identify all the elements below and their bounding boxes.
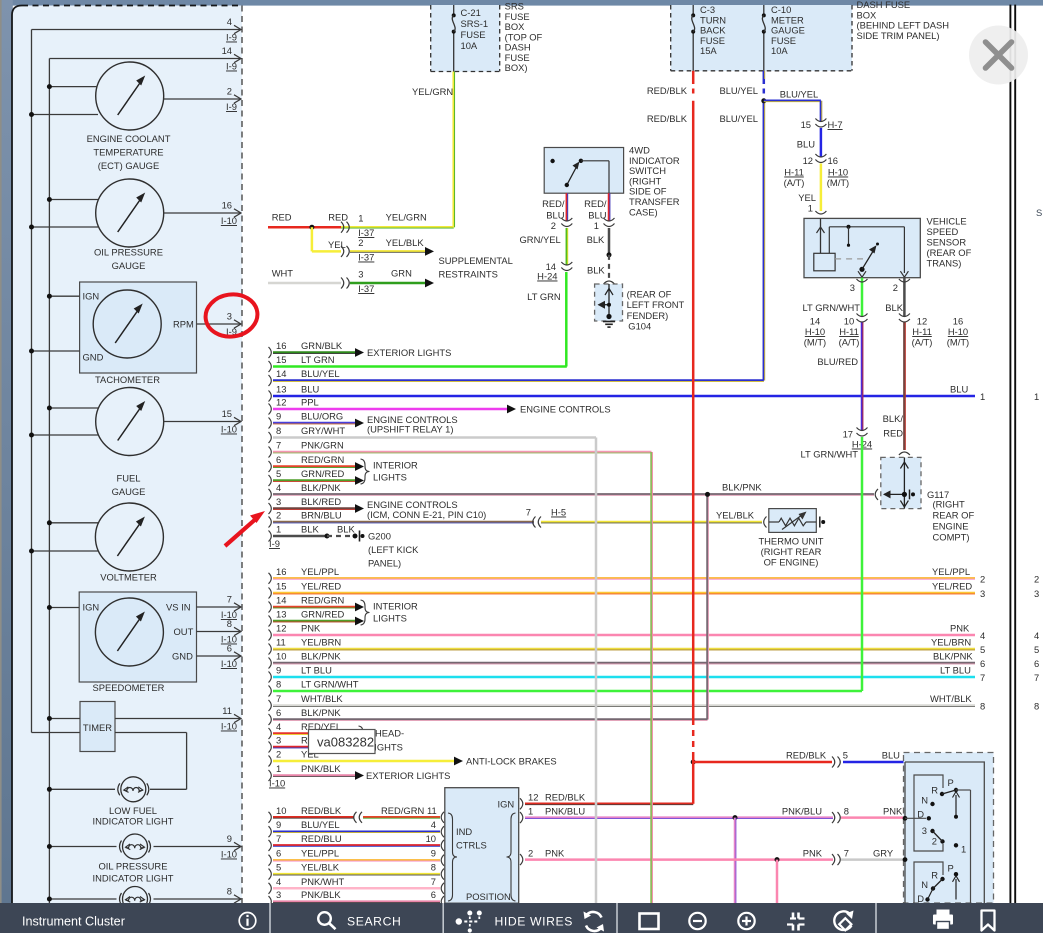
toolbar rotate/diamond icon [834,911,853,931]
svg-text:YEL/PPL: YEL/PPL [301,848,339,859]
svg-text:BLK: BLK [301,524,319,535]
svg-text:8: 8 [276,679,281,690]
svg-text:9: 9 [227,833,232,844]
svg-text:YEL: YEL [798,192,816,203]
label exterior lights (pin 1) [366,770,450,781]
svg-text:GAUGE: GAUGE [112,486,146,497]
svg-text:RED: RED [328,212,348,223]
svg-text:4: 4 [276,721,281,732]
svg-text:EXTERIOR LIGHTS: EXTERIOR LIGHTS [366,770,450,781]
svg-text:I-9: I-9 [226,61,237,72]
svg-text:15: 15 [276,354,286,365]
wire YEL/BLK from H-5 to thermo unit [541,510,762,523]
svg-text:5: 5 [1034,644,1039,655]
svg-text:10: 10 [426,833,436,844]
svg-text:16: 16 [828,155,838,166]
svg-text:GRN/RED: GRN/RED [301,609,344,620]
component: 4WD indicator switch [544,145,680,218]
svg-text:SENSOR: SENSOR [927,237,967,248]
svg-text:8: 8 [431,862,436,873]
wire BLU to connector 12/16 [784,128,850,188]
svg-text:2: 2 [276,749,281,760]
svg-text:YEL/BRN: YEL/BRN [931,637,971,648]
svg-text:TIMER: TIMER [83,722,112,733]
svg-text:(A/T): (A/T) [784,177,805,188]
svg-text:5: 5 [980,644,985,655]
gauge: speedometer [47,592,241,693]
wire RED/BLK dashes below C-3 [647,71,693,124]
fuse box DASH (C-3, C-10) [671,4,852,71]
wire I-9 pin 1 BLK [269,524,328,542]
brace + label headlights (pins 4,3) [359,726,405,753]
svg-text:IGN: IGN [83,291,100,302]
gauge: engine coolant temperature [29,62,241,171]
svg-text:15A: 15A [700,45,717,56]
svg-text:6: 6 [276,454,281,465]
svg-text:8: 8 [980,701,985,712]
wire I-9 pin 8 GRY/WHT [269,425,597,443]
label engine controls ICM (pin 3) [367,499,486,520]
toolbar bookmark icon [982,911,995,931]
toolbar info icon [239,913,256,930]
svg-text:YEL/GRN: YEL/GRN [412,86,453,97]
svg-text:PNK/WHT: PNK/WHT [301,876,345,887]
svg-text:15: 15 [276,581,286,592]
svg-text:RED/: RED/ [542,198,565,209]
svg-text:8: 8 [1034,701,1039,712]
svg-text:CTRLS: CTRLS [456,840,487,851]
svg-text:LT GRN: LT GRN [301,354,335,365]
svg-text:RPM: RPM [173,319,194,330]
VSS pin 3 wire LT GRN/WHT [803,278,868,348]
4WD switch pin 1 wire RED/BLU [584,193,614,231]
svg-text:H-5: H-5 [551,507,566,518]
svg-text:FUSE: FUSE [461,29,486,40]
svg-text:(REAR OF: (REAR OF [627,289,672,300]
label G117 location [933,499,975,543]
svg-text:1: 1 [276,763,281,774]
svg-text:3: 3 [227,311,232,322]
svg-text:BLK/: BLK/ [883,413,904,424]
svg-text:RED: RED [883,428,903,439]
svg-text:(UPSHIFT RELAY 1): (UPSHIFT RELAY 1) [367,424,453,435]
svg-text:14: 14 [276,368,286,379]
svg-text:GRN: GRN [391,268,412,279]
gauge: fuel [29,388,241,498]
wire end label WHT/BLK 8 [930,693,1039,712]
svg-text:N: N [921,794,928,805]
svg-text:OUT: OUT [174,626,194,637]
lamp: oil pressure indicator light [47,833,241,884]
component: transmission range switch [903,753,994,905]
svg-text:(M/T): (M/T) [947,337,969,348]
svg-text:14: 14 [810,316,820,327]
svg-text:VOLTMETER: VOLTMETER [100,572,157,583]
wire I-10 pin 3 RED/BLU [269,735,365,753]
wire ind-ctrls pin 5 YEL/BLK [269,862,445,880]
svg-text:(LEFT KICK: (LEFT KICK [368,544,419,555]
svg-text:5: 5 [276,862,281,873]
svg-text:H-10: H-10 [948,326,968,337]
svg-text:(M/T): (M/T) [827,177,849,188]
svg-text:7: 7 [431,876,436,887]
svg-text:POSITION: POSITION [466,891,511,902]
svg-text:3: 3 [276,889,281,900]
svg-text:Instrument Cluster: Instrument Cluster [22,915,125,929]
svg-text:VS IN: VS IN [166,602,191,613]
toolbar search icon + label [318,912,401,929]
svg-text:8: 8 [276,425,281,436]
lamp: low fuel indicator light [47,777,174,827]
close (X) button [969,26,1028,85]
wire end label YEL/RED 3 [932,581,1039,600]
svg-text:4: 4 [431,819,436,830]
wire I-10 pin 14 RED/GRN [269,595,365,613]
connector label I-10 [269,778,285,789]
wire LT GRN/WHT down to bundle row 8 [861,437,864,691]
svg-text:IND: IND [456,826,472,837]
svg-text:10: 10 [844,316,854,327]
wire GRN/YEL to connector 14 H-24 [520,228,573,282]
wire I-10 pin 15 YEL/RED [269,581,976,599]
bus wire left (gauge ground bus) [32,30,81,733]
wire I-9 pin 4 BLK/PNK [269,482,875,500]
svg-text:D: D [917,893,924,904]
svg-text:7: 7 [844,848,849,859]
toolbar zoom-out icon [689,913,705,929]
svg-text:7: 7 [276,693,281,704]
svg-text:SPEEDOMETER: SPEEDOMETER [93,682,165,693]
wire I-9 pin 13 BLU [269,384,976,402]
svg-text:YEL/BLK: YEL/BLK [716,510,755,521]
svg-text:N: N [921,879,928,890]
wire PNK vertical branch [776,860,779,903]
wire RED/BLK branch to inhibitor switch pin 5 [693,750,905,768]
bus wire right (ignition bus) [48,59,50,904]
svg-text:I-37: I-37 [358,283,374,294]
wire I-9 pin 14 BLU/YEL [269,368,764,386]
svg-text:(A/T): (A/T) [839,337,860,348]
svg-text:PNK/BLK: PNK/BLK [301,763,341,774]
svg-text:LIGHTS: LIGHTS [373,472,407,483]
wire I-9 pin 3 BLK/RED [269,496,365,514]
svg-text:G104: G104 [628,321,651,332]
svg-text:YEL/PPL: YEL/PPL [932,566,970,577]
wire BLK/RED down to G117 [883,323,910,456]
svg-text:YEL/RED: YEL/RED [932,581,972,592]
svg-text:16: 16 [276,340,286,351]
svg-text:EXTERIOR LIGHTS: EXTERIOR LIGHTS [367,347,451,358]
svg-text:3: 3 [276,735,281,746]
label engine controls upshift relay (pin 9) [367,414,458,435]
svg-text:(ECT) GAUGE: (ECT) GAUGE [98,160,159,171]
svg-text:PNK: PNK [301,623,321,634]
svg-text:LIGHTS: LIGHTS [373,613,407,624]
svg-text:16: 16 [222,200,232,211]
svg-text:10: 10 [276,651,286,662]
svg-text:8: 8 [227,618,232,629]
svg-text:8: 8 [227,886,232,897]
svg-text:1: 1 [980,391,985,402]
svg-text:11: 11 [427,805,437,816]
wire BLU end label [950,384,1039,403]
svg-text:SUPPLEMENTAL: SUPPLEMENTAL [439,255,513,266]
svg-text:7: 7 [276,440,281,451]
svg-text:OIL PRESSURE: OIL PRESSURE [94,247,163,258]
svg-text:BLK/RED: BLK/RED [301,496,341,507]
svg-text:2: 2 [358,237,363,248]
top window bar [0,0,1043,6]
svg-text:9: 9 [276,819,281,830]
svg-text:RED/BLK: RED/BLK [301,805,342,816]
svg-text:PNK: PNK [950,623,970,634]
svg-text:PNK: PNK [545,848,565,859]
label G104 location [627,289,685,332]
wire I-10 pin 1 PNK/BLK [269,763,365,781]
svg-text:(REAR OF: (REAR OF [927,247,972,258]
svg-text:6: 6 [431,889,436,900]
wire end label LT BLU 7 [940,665,1039,684]
svg-text:OF ENGINE): OF ENGINE) [764,557,819,568]
svg-text:TEMPERATURE: TEMPERATURE [93,147,163,158]
svg-text:1: 1 [594,220,599,231]
svg-text:LOW FUEL: LOW FUEL [109,805,157,816]
svg-text:LT GRN/WHT: LT GRN/WHT [301,679,359,690]
wire ind-ctrls pin 12 RED/BLK (IGN feed) [520,792,693,810]
svg-text:2: 2 [980,573,985,584]
svg-text:4: 4 [276,482,281,493]
wire BLU/YEL vertical from C-10 fuse [763,101,766,381]
wire PNK/BLU vertical branch [734,818,737,903]
wire end label PNK 4 [950,623,1039,642]
wire PNK/GRN vertical [650,452,653,903]
svg-text:FENDER): FENDER) [627,310,669,321]
svg-text:IGN: IGN [498,799,515,810]
wire I-9 pin 6 RED/GRN [269,454,365,472]
wire BLK/PNK into G117 [722,481,878,500]
wire BLU/RED to connector 17 H-24 [801,323,873,460]
svg-text:ENGINE COOLANT: ENGINE COOLANT [87,133,171,144]
svg-text:P: P [948,863,954,874]
svg-text:SEARCH: SEARCH [347,915,401,929]
wire BLK/PNK vertical (to G117 splice) [705,492,710,720]
svg-text:RED/GRN: RED/GRN [301,595,344,606]
svg-text:12: 12 [276,623,286,634]
svg-text:8: 8 [844,806,849,817]
stray letter S at right edge [1036,207,1042,218]
svg-text:TACHOMETER: TACHOMETER [95,374,160,385]
svg-text:BLU/YEL: BLU/YEL [780,89,819,100]
4WD switch pin 2 wire RED/BLU [542,193,572,231]
svg-text:2: 2 [551,220,556,231]
svg-text:SPEED: SPEED [927,226,959,237]
svg-text:1: 1 [961,844,966,855]
svg-text:16: 16 [953,316,963,327]
svg-text:RED/BLK: RED/BLK [545,792,586,803]
svg-text:11: 11 [222,705,232,716]
toolbar center/compress icon [787,913,805,931]
ground G104 box [595,284,623,327]
wire ind-ctrls pin 4 PNK/WHT [269,876,445,894]
svg-text:SIDE TRIM PANEL): SIDE TRIM PANEL) [857,30,940,41]
svg-text:GRY/WHT: GRY/WHT [301,425,345,436]
diagram page edge double line [1010,5,1015,903]
connector 7 H-5 on pin 2 wire [526,507,566,528]
svg-text:2: 2 [227,86,232,97]
svg-text:9: 9 [276,411,281,422]
wire I-9 pin 7 PNK/GRN [269,440,652,458]
component: thermo unit [758,509,825,568]
svg-text:BLU: BLU [882,750,900,761]
wire end label YEL/BRN 5 [931,637,1039,656]
wire end label BLK/PNK 6 [933,651,1039,670]
svg-text:12: 12 [803,155,813,166]
wire BLK dashed to ground G104 [587,255,615,284]
svg-text:FUEL: FUEL [117,473,141,484]
svg-text:14: 14 [222,45,232,56]
svg-text:PNK: PNK [883,806,903,817]
wire ind-ctrls pin 1 PNK/BLU [520,806,905,824]
svg-text:HIDE WIRES: HIDE WIRES [495,915,573,929]
wire BLK to splice [587,228,612,257]
svg-text:16: 16 [276,566,286,577]
label DASH fuse box [857,0,950,41]
svg-text:D: D [917,809,924,820]
svg-text:BLU: BLU [797,139,815,150]
svg-text:BLU: BLU [301,384,319,395]
svg-text:GRN/RED: GRN/RED [301,468,344,479]
pin 4 I-9 output wire [32,16,242,43]
svg-text:va083282: va083282 [317,735,374,750]
svg-text:2: 2 [528,848,533,859]
svg-text:H-7: H-7 [828,119,843,130]
timer box [47,702,241,790]
svg-text:RED: RED [272,212,292,223]
svg-text:(RIGHT: (RIGHT [933,499,966,510]
svg-text:4: 4 [276,876,281,887]
svg-text:WHT/BLK: WHT/BLK [930,693,972,704]
svg-text:2: 2 [276,510,281,521]
svg-text:PNK/BLK: PNK/BLK [301,889,341,900]
svg-text:RED/: RED/ [584,198,607,209]
svg-text:3: 3 [850,282,855,293]
svg-text:BLK/PNK: BLK/PNK [301,707,341,718]
wire I-10 pin 16 YEL/PPL [269,566,976,584]
svg-text:3: 3 [1034,588,1039,599]
svg-text:1: 1 [358,213,363,224]
svg-text:I-9: I-9 [269,538,280,549]
svg-text:9: 9 [276,665,281,676]
svg-text:7: 7 [980,672,985,683]
svg-text:VEHICLE: VEHICLE [927,216,967,227]
svg-text:GRN/YEL: GRN/YEL [520,234,561,245]
wire YEL/GRN from C-21 [341,72,455,229]
svg-text:IGN: IGN [83,602,100,613]
svg-text:ENGINE CONTROLS: ENGINE CONTROLS [520,404,611,415]
wire I-10 pin 9 LT BLU [269,665,976,683]
wire I-9 pin 12 PPL [269,397,508,415]
svg-text:1: 1 [528,806,533,817]
svg-text:BLK: BLK [587,265,605,276]
svg-text:YEL/RED: YEL/RED [301,581,341,592]
gauge: oil pressure [29,179,241,271]
fuse box SRS (C-21 SRS-1) [431,5,500,72]
svg-text:HEAD-: HEAD- [375,728,404,739]
brace + label interior lights (pins 14,13) [361,600,419,625]
svg-text:PANEL): PANEL) [368,558,401,569]
svg-text:10A: 10A [461,40,478,51]
svg-text:GRN/BLK: GRN/BLK [301,340,343,351]
svg-text:I-10: I-10 [221,215,237,226]
wire I-10 pin 10 BLK/PNK [269,651,976,669]
bottom toolbar [0,903,1043,933]
svg-text:LT BLU: LT BLU [301,665,332,676]
wire ind-ctrls pin 7 RED/BLU [269,833,445,851]
brace + label interior lights (pins 6,5) [361,459,419,484]
svg-text:3: 3 [276,496,281,507]
svg-text:(M/T): (M/T) [804,337,826,348]
svg-text:RED/BLU: RED/BLU [301,833,342,844]
svg-text:2: 2 [1034,573,1039,584]
svg-text:13: 13 [276,384,286,395]
ground G117 box [881,457,949,508]
wire I-9 pin 2 BRN/BLU [269,510,535,528]
svg-text:YEL/GRN: YEL/GRN [386,212,427,223]
wire ind-ctrls pin 2 PNK [520,848,905,866]
component: vehicle speed sensor [804,216,972,278]
wire BLU/YEL branch to connector 15 H-7 [764,89,843,131]
svg-text:INDICATOR LIGHT: INDICATOR LIGHT [93,873,174,884]
toolbar hide-wires icon + label [456,911,573,933]
svg-text:BLU/RED: BLU/RED [817,356,858,367]
svg-text:R: R [931,785,938,796]
svg-text:(A/T): (A/T) [912,337,933,348]
connector label I-9 [269,538,280,549]
svg-text:14: 14 [276,595,286,606]
svg-text:INTERIOR: INTERIOR [373,460,418,471]
svg-text:BLU/YEL: BLU/YEL [301,819,340,830]
wire GRY/WHT vertical [595,438,598,904]
svg-text:INTERIOR: INTERIOR [373,601,418,612]
svg-text:I-10: I-10 [221,849,237,860]
svg-text:6: 6 [980,658,985,669]
svg-text:2: 2 [932,836,937,847]
label anti-lock brakes (pin 2) [454,756,557,767]
svg-text:WHT/BLK: WHT/BLK [301,693,343,704]
svg-text:12: 12 [528,792,538,803]
svg-text:10A: 10A [771,45,788,56]
svg-text:GRY: GRY [873,848,894,859]
svg-text:LEFT FRONT: LEFT FRONT [627,299,685,310]
wire I-10 pin 12 PNK [269,623,976,641]
svg-text:BOX): BOX) [505,62,528,73]
svg-text:C-21: C-21 [461,7,481,18]
svg-text:BLK/PNK: BLK/PNK [301,651,341,662]
svg-text:H-10: H-10 [828,167,848,178]
wire I-9 pin 5 GRN/RED [269,468,365,486]
svg-text:H-11: H-11 [839,326,859,337]
toolbar title [22,915,125,929]
svg-text:7: 7 [276,833,281,844]
wire I-10 pin 11 YEL/BRN [269,637,976,655]
wire I-10 pin 7 WHT/BLK [269,693,976,711]
svg-text:RED/GRN: RED/GRN [301,454,344,465]
svg-text:1: 1 [1034,391,1039,402]
svg-text:6: 6 [1034,658,1039,669]
wire ind-ctrls pin 9 BLU/YEL [269,819,445,837]
wire ind-ctrls pin 3 PNK/BLK [269,889,445,907]
svg-text:I-10: I-10 [221,721,237,732]
